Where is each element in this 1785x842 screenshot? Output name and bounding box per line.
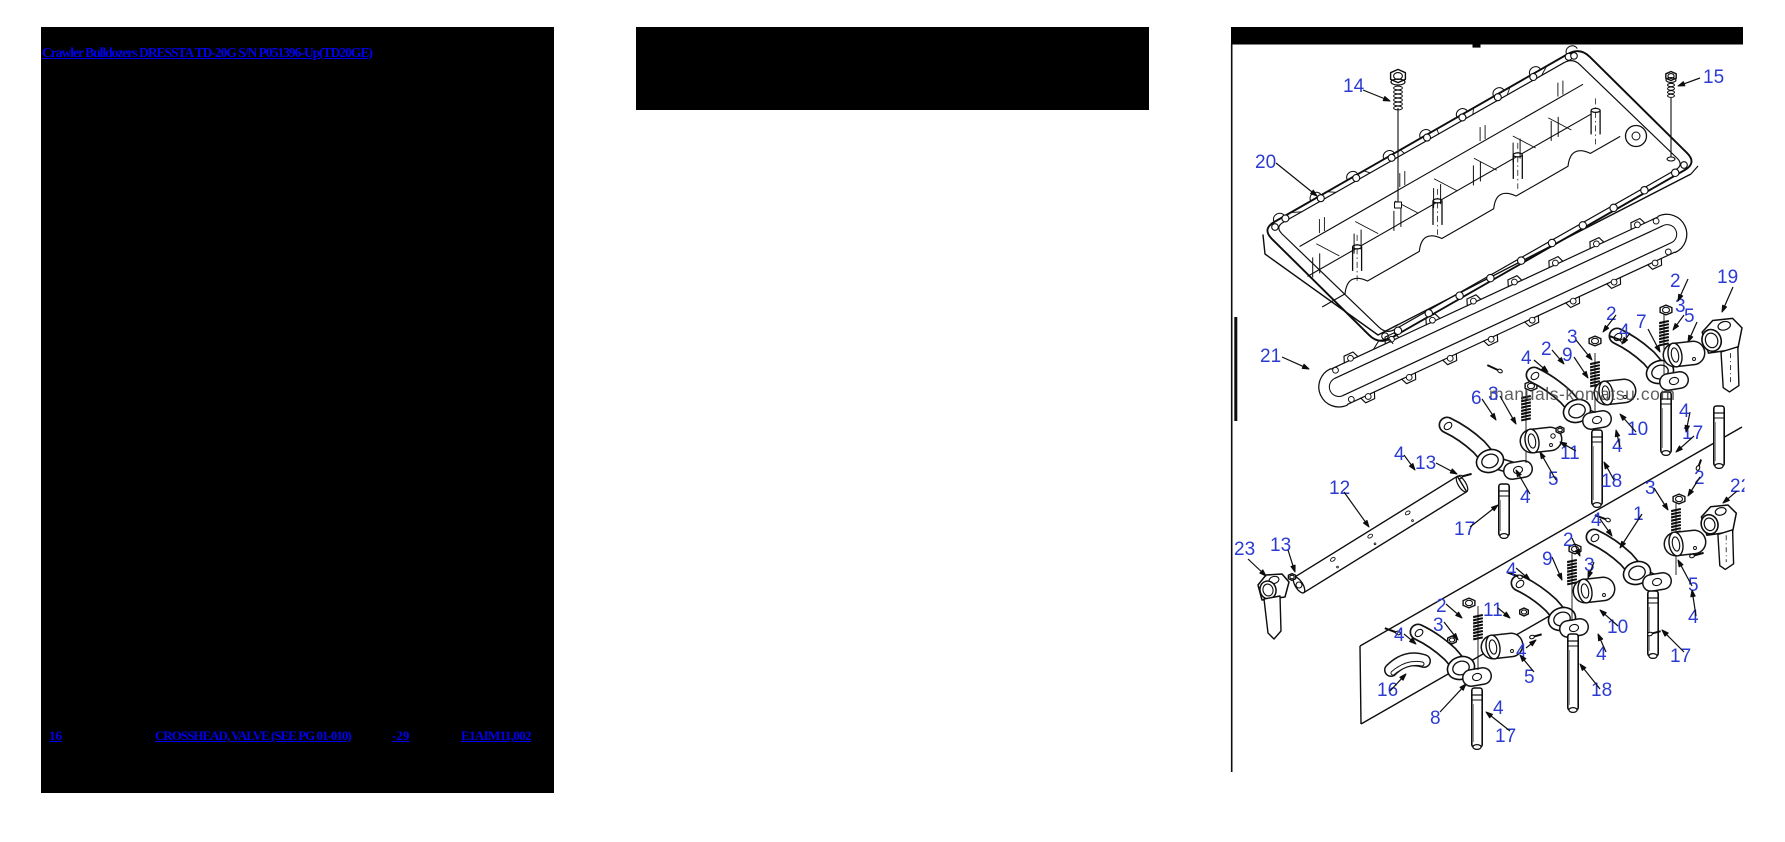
svg-text:17: 17 [1454, 519, 1475, 540]
svg-text:4: 4 [1493, 698, 1504, 719]
svg-text:23: 23 [1234, 539, 1255, 560]
svg-text:5: 5 [1548, 469, 1559, 490]
svg-text:3: 3 [1488, 384, 1499, 405]
svg-text:7: 7 [1636, 312, 1647, 333]
svg-text:4: 4 [1394, 625, 1405, 646]
svg-text:3: 3 [1433, 615, 1444, 636]
svg-text:11: 11 [1483, 600, 1503, 621]
svg-text:17: 17 [1495, 726, 1516, 747]
svg-text:20: 20 [1255, 152, 1276, 173]
svg-text:13: 13 [1270, 535, 1291, 556]
svg-text:18: 18 [1601, 471, 1622, 492]
svg-text:10: 10 [1627, 419, 1648, 440]
svg-text:9: 9 [1542, 549, 1553, 570]
svg-text:11: 11 [1560, 443, 1580, 464]
svg-text:4: 4 [1612, 436, 1623, 457]
svg-text:8: 8 [1430, 708, 1441, 729]
svg-text:10: 10 [1607, 617, 1628, 638]
svg-text:16: 16 [1377, 680, 1398, 701]
svg-text:15: 15 [1703, 67, 1724, 88]
svg-text:manuals-komatsu.com: manuals-komatsu.com [1489, 384, 1675, 404]
svg-text:2: 2 [1541, 339, 1552, 360]
svg-text:4: 4 [1688, 607, 1699, 628]
svg-text:2: 2 [1436, 596, 1447, 617]
svg-text:4: 4 [1506, 560, 1517, 581]
svg-text:19: 19 [1717, 267, 1738, 288]
svg-text:14: 14 [1343, 76, 1365, 97]
svg-text:5: 5 [1684, 306, 1695, 327]
svg-text:4: 4 [1394, 444, 1405, 465]
svg-text:2: 2 [1563, 530, 1574, 551]
svg-text:13: 13 [1415, 453, 1436, 474]
svg-text:18: 18 [1591, 680, 1612, 701]
svg-text:21: 21 [1260, 346, 1281, 367]
svg-text:4: 4 [1596, 644, 1607, 665]
svg-text:4: 4 [1520, 487, 1531, 508]
svg-text:6: 6 [1471, 388, 1482, 409]
svg-text:4: 4 [1521, 348, 1532, 369]
svg-text:2: 2 [1670, 271, 1681, 292]
